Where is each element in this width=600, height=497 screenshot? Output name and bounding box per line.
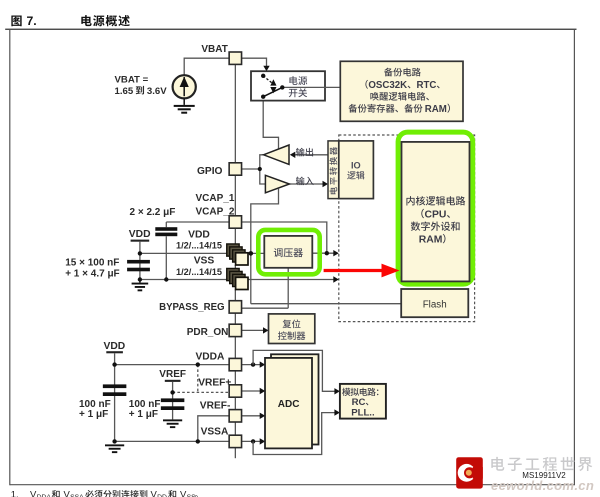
svg-text:RC: RC bbox=[352, 397, 366, 408]
label 调压器 bbox=[274, 248, 303, 257]
label Flash bbox=[423, 299, 447, 310]
svg-text:PDR_ON: PDR_ON bbox=[187, 327, 229, 338]
svg-text:100 nF: 100 nF bbox=[79, 399, 111, 410]
label 电平转换器 (vertical) bbox=[330, 147, 338, 194]
svg-text:VBAT =: VBAT = bbox=[115, 75, 149, 86]
label VDD (bottom) bbox=[104, 341, 126, 352]
svg-text:VREF: VREF bbox=[159, 369, 186, 380]
label VREF+ bbox=[198, 377, 231, 388]
label VREF bbox=[159, 369, 186, 380]
dashed core-logic domain box bbox=[339, 135, 475, 322]
node VDD junction bbox=[249, 251, 254, 256]
ground for VDD bottom bbox=[105, 444, 124, 453]
label 100 nF + 1 μF (VREF) bbox=[129, 399, 161, 420]
label ADC bbox=[278, 399, 300, 410]
voltage source B1 bbox=[173, 75, 196, 98]
ADC stacked box back bbox=[271, 354, 319, 444]
watermark 电子工程世界 bbox=[491, 457, 592, 471]
reset controller box U6 bbox=[269, 314, 315, 344]
pins VSS 1..15 stack bbox=[227, 268, 248, 289]
wire VSSA pin to ADC bbox=[242, 438, 266, 444]
wire 输出 from level shifter to output buffer bbox=[290, 152, 328, 158]
wire VDD to Flash bbox=[251, 303, 401, 305]
svg-text:7.: 7. bbox=[27, 14, 37, 28]
svg-text:OSC32K: OSC32K bbox=[368, 80, 407, 91]
wire VBAT pin to source bbox=[184, 58, 229, 75]
wire ground to VSSA pin bbox=[115, 439, 230, 443]
power switch contacts bbox=[261, 74, 284, 99]
wire VREF dashed to VREF+ pin bbox=[173, 391, 230, 393]
title underline / frame top bbox=[5, 29, 576, 30]
svg-text:VREF-: VREF- bbox=[200, 401, 231, 412]
svg-text:+ 1 μF: + 1 μF bbox=[79, 409, 108, 420]
wire VSS pin into core domain bbox=[248, 276, 339, 282]
capacitor C3 100nF bbox=[103, 384, 127, 396]
footnote 1 bbox=[11, 490, 198, 497]
level shifter strip U7 bbox=[328, 141, 339, 199]
svg-text:Flash: Flash bbox=[423, 299, 447, 310]
svg-text:RAM: RAM bbox=[419, 234, 443, 245]
label 模拟电路 RC PLL bbox=[342, 388, 378, 419]
label 电源开关 bbox=[289, 76, 307, 97]
wire VSSA under ADC to analog block bbox=[253, 409, 340, 454]
figure title 图 7. 电源概述 bbox=[11, 14, 129, 28]
wire regulator output arrow bbox=[312, 250, 339, 256]
label VBAT = 1.65 到 3.6V bbox=[115, 75, 168, 97]
svg-text:VBAT: VBAT bbox=[201, 44, 227, 55]
watermark eeworld logo bbox=[456, 457, 483, 488]
svg-text:RAM: RAM bbox=[425, 104, 447, 115]
wire VDDA pin to ADC bbox=[242, 361, 266, 367]
ground for VREF bbox=[163, 419, 182, 428]
regulator green highlight bbox=[258, 230, 319, 274]
svg-text:+ 1 μF: + 1 μF bbox=[129, 409, 158, 420]
label 15 × 100 nF + 1 × 4.7 μF bbox=[65, 258, 119, 280]
core logic green highlight bbox=[398, 132, 473, 284]
svg-text:3.6V: 3.6V bbox=[147, 86, 167, 97]
pin GPIO bbox=[229, 163, 241, 175]
label 输入 bbox=[296, 177, 314, 186]
label PDR_ON bbox=[187, 327, 229, 338]
red arrow regulator to core bbox=[324, 264, 400, 278]
backup circuit box U2 bbox=[340, 61, 463, 121]
label VDD 1/2/...14/15 bbox=[176, 229, 222, 250]
svg-text:RTC: RTC bbox=[417, 80, 437, 91]
svg-text:1.: 1. bbox=[11, 490, 19, 497]
pin VREF+ bbox=[229, 385, 241, 397]
IO logic box U8 bbox=[339, 141, 374, 199]
label 2 × 2.2 μF bbox=[130, 207, 176, 218]
input buffer U4 bbox=[265, 175, 289, 193]
ground for VDD branch bbox=[132, 280, 149, 292]
wire VREF- to ground rail bbox=[198, 416, 229, 442]
pin VCAP bbox=[229, 216, 241, 228]
label 输出 bbox=[296, 148, 313, 157]
svg-text:ADC: ADC bbox=[278, 399, 300, 410]
capacitor C4 100nF bbox=[161, 398, 185, 410]
svg-text:VREF+: VREF+ bbox=[198, 377, 231, 388]
svg-text:eeworld.com.cn: eeworld.com.cn bbox=[491, 478, 594, 493]
pin VREF- bbox=[229, 410, 241, 422]
pin VBAT bbox=[229, 52, 241, 64]
svg-text:2 × 2.2 μF: 2 × 2.2 μF bbox=[130, 207, 176, 218]
label VBAT bbox=[201, 44, 227, 55]
output buffer U3 bbox=[264, 145, 290, 164]
svg-text:CPU: CPU bbox=[425, 209, 447, 220]
wire VREF+ pin to ADC bbox=[242, 388, 266, 394]
svg-text:VDD: VDD bbox=[188, 229, 210, 240]
label BYPASS_REG bbox=[159, 302, 225, 313]
VDD bottom supply bar bbox=[106, 351, 123, 353]
wire BYPASS_REG to regulator bbox=[242, 307, 289, 309]
regulator box U5 bbox=[264, 236, 312, 268]
wire ground rail to VSS pins bbox=[140, 279, 236, 281]
VREF supply bar bbox=[165, 380, 181, 382]
label VSSA bbox=[201, 426, 229, 437]
VDD supply bar bbox=[131, 240, 150, 242]
capacitor C2 2.2uF bbox=[155, 222, 177, 280]
watermark eeworld.com.cn bbox=[491, 478, 594, 493]
flash box U10 bbox=[401, 289, 468, 317]
label VSS 1/2/...14/15 bbox=[176, 256, 222, 277]
dashed wire VDDA to VREF+ bbox=[196, 362, 200, 392]
wire VDD branch to regulator input bbox=[140, 252, 264, 254]
label IO 逻辑 bbox=[347, 160, 364, 179]
svg-text:+ 1 × 4.7 μF: + 1 × 4.7 μF bbox=[65, 269, 119, 280]
wire 输入 from input buffer to level shifter bbox=[289, 181, 328, 187]
svg-text:IO: IO bbox=[351, 160, 361, 170]
pin VSSA bbox=[229, 435, 241, 447]
label VDD (left) bbox=[129, 229, 151, 240]
analog circuit box U12 bbox=[340, 384, 386, 419]
label VDDA bbox=[196, 352, 226, 363]
wire VDD bottom down bbox=[112, 353, 116, 443]
wire GPIO to buffers junction bbox=[242, 155, 266, 184]
ADC box U11 bbox=[265, 358, 312, 449]
svg-text:VSS: VSS bbox=[194, 256, 215, 267]
wire power switch to backup circuit bbox=[282, 86, 340, 88]
label 内核逻辑电路 (CPU 数字外设和 RAM) bbox=[406, 196, 465, 245]
wire VDD to VDDA line bbox=[115, 364, 230, 366]
pins VDD 1..15 stack bbox=[227, 244, 248, 265]
svg-text:BYPASS_REG: BYPASS_REG bbox=[159, 302, 225, 313]
pin PDR_ON bbox=[229, 324, 241, 336]
label 复位控制器 bbox=[278, 319, 305, 340]
main pin rail bbox=[234, 64, 236, 458]
wire VCAP to regulator output bbox=[166, 222, 326, 253]
wire PDR_ON to reset controller bbox=[242, 327, 269, 333]
label MS19911V2 bbox=[522, 471, 566, 480]
svg-text:VDDA: VDDA bbox=[196, 352, 226, 363]
svg-text:1/2/...14/15: 1/2/...14/15 bbox=[176, 267, 222, 277]
svg-text:VSSA: VSSA bbox=[201, 426, 229, 437]
svg-text:GPIO: GPIO bbox=[197, 166, 223, 177]
wire VDDA over ADC to analog block bbox=[253, 350, 340, 394]
svg-text:1.65: 1.65 bbox=[115, 86, 134, 97]
pin BYPASS_REG bbox=[229, 301, 241, 313]
label 备份电路 bbox=[349, 68, 450, 115]
svg-text:15 × 100 nF: 15 × 100 nF bbox=[65, 258, 119, 269]
core logic box U9 bbox=[402, 142, 470, 282]
svg-text:VCAP_1: VCAP_1 bbox=[196, 193, 235, 204]
wire VDD bar down bbox=[138, 242, 169, 282]
wire input buffer supply down to VDD rail bbox=[251, 189, 279, 304]
wire VBAT pin to power switch bbox=[242, 58, 270, 71]
svg-text:PLL..: PLL.. bbox=[351, 407, 374, 418]
wire regulator bottom stem bbox=[287, 268, 289, 308]
svg-text:VDD: VDD bbox=[129, 229, 151, 240]
wire VREF down bbox=[170, 382, 174, 420]
label 100 nF + 1 μF (VDD) bbox=[79, 399, 111, 420]
power switch box bbox=[251, 71, 325, 100]
svg-text:100 nF: 100 nF bbox=[129, 399, 161, 410]
label VREF- bbox=[200, 401, 231, 412]
capacitor C1 100nF bbox=[127, 260, 150, 271]
svg-text:1/2/...14/15: 1/2/...14/15 bbox=[176, 241, 222, 251]
pin VDDA bbox=[229, 358, 241, 370]
wire VREF- pin to ADC bbox=[242, 413, 266, 419]
label GPIO bbox=[197, 166, 223, 177]
wire power switch to output buffer supply bbox=[263, 97, 278, 151]
svg-text:VDD: VDD bbox=[104, 341, 126, 352]
ground for VBAT source bbox=[174, 98, 195, 113]
label VCAP_1 VCAP_2 bbox=[196, 193, 235, 218]
